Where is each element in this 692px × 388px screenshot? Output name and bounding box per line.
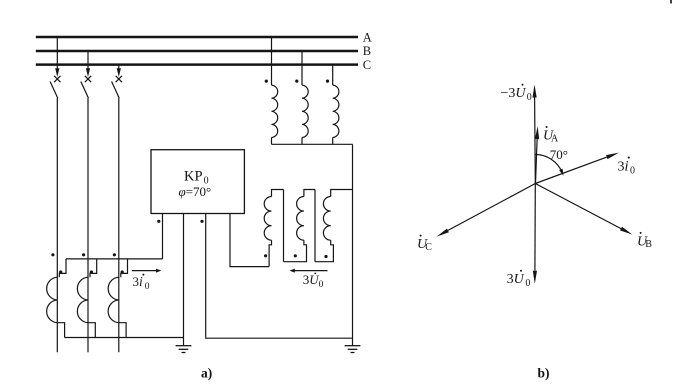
- bus B: [36, 44, 371, 58]
- vector -3U0 (up): [533, 85, 537, 184]
- current transformer TA3 secondary winding: [108, 277, 119, 323]
- wire relay terminal 1 (to 3I0 bus): [162, 214, 164, 259]
- label arrow 3U0: [289, 269, 327, 273]
- svg-text:3i: 3i: [133, 274, 144, 289]
- arrowhead on drop 1: [55, 68, 59, 77]
- node polarity dot TA1 primary: [51, 253, 54, 256]
- wire VT primary drop phase 1: [271, 37, 273, 85]
- svg-text:70°: 70°: [550, 147, 568, 162]
- label -3U0: [501, 84, 532, 103]
- label 3I0: [133, 274, 150, 292]
- inductor VT primary winding 2: [302, 85, 308, 137]
- node polarity dot TA3 primary: [113, 253, 116, 256]
- current transformer TA2 secondary winding: [77, 277, 88, 323]
- inductor VT secondary winding 1: [264, 197, 271, 241]
- label arrow 3I0: [132, 269, 162, 273]
- wire VT primary 1 bottom stub: [271, 138, 273, 145]
- wire VT secondary unit 2 right leg: [314, 190, 316, 262]
- wire open-delta link 1-2: [284, 240, 307, 262]
- wire CT common return bus: [65, 337, 184, 339]
- current transformer TA1 secondary winding: [47, 277, 58, 323]
- node polarity dot VT primary 1: [265, 80, 268, 83]
- svg-text:a): a): [201, 366, 212, 381]
- wire VT secondary unit 2 top bracket: [304, 190, 315, 197]
- node polarity dot VT primary 2: [295, 80, 298, 83]
- node polarity dot TA3 secondary: [121, 270, 124, 273]
- svg-text:C: C: [363, 58, 371, 72]
- svg-text:B: B: [645, 239, 652, 250]
- inductor VT primary winding 3: [333, 85, 339, 137]
- wire drop phase 2 from bus: [87, 51, 89, 70]
- wire TA1 secondary bottom lead: [57, 323, 64, 338]
- wire relay terminal 3 (to bottom bus): [206, 214, 353, 339]
- wire open-delta link 2-3: [315, 240, 333, 262]
- svg-text:0: 0: [319, 280, 324, 290]
- wire relay terminal 4 (3U0 bus to open delta): [230, 214, 269, 267]
- svg-text:0: 0: [145, 282, 150, 292]
- bus C: [36, 58, 371, 72]
- svg-text:A: A: [363, 30, 372, 44]
- label 3U0 (down): [507, 270, 531, 289]
- switch QS3 (x mark): [116, 76, 122, 82]
- wire TA3 secondary bottom lead: [119, 323, 126, 338]
- node polarity dot TA2 primary: [82, 253, 85, 256]
- label UB: [637, 232, 652, 250]
- node polarity dot secondary 2: [294, 254, 297, 257]
- wire VT primary neutral bus: [272, 143, 353, 145]
- svg-text:B: B: [363, 44, 371, 58]
- node dot relay terminal 1: [157, 220, 160, 223]
- switch QS1 blade: [50, 82, 58, 99]
- label UC: [417, 235, 432, 253]
- angle arc 70deg: [535, 154, 563, 175]
- switch QS2 blade: [81, 82, 89, 99]
- svg-text:0: 0: [527, 92, 532, 103]
- svg-text:3U: 3U: [507, 272, 525, 287]
- svg-text:A: A: [551, 133, 559, 144]
- ground G1 (under relay): [176, 346, 192, 353]
- inductor VT primary winding 1: [272, 85, 278, 137]
- node polarity dot secondary 3: [324, 255, 327, 258]
- vector UC (lower left): [437, 184, 536, 237]
- svg-text:−3U: −3U: [501, 86, 527, 101]
- inductor VT secondary winding 3: [323, 197, 330, 241]
- corner tick mark: [670, 0, 672, 4]
- wire drop phase 3 from bus: [118, 65, 120, 70]
- svg-text:0: 0: [525, 278, 530, 289]
- wire relay terminal 2 (to ground): [183, 214, 185, 346]
- node polarity dot TA2 secondary: [90, 270, 93, 273]
- label UA: [543, 126, 559, 144]
- bus A: [36, 30, 372, 44]
- node polarity dot TA1 secondary: [59, 270, 62, 273]
- wire VT primary drop phase 2: [301, 51, 303, 85]
- wire VT primary drop phase 3: [332, 65, 334, 86]
- ground G2 (bottom right): [345, 346, 361, 353]
- vector 3I0 (upper right): [535, 153, 619, 184]
- svg-text:KP: KP: [184, 169, 203, 185]
- wire VT primary 3 bottom stub: [332, 138, 334, 145]
- node polarity dot secondary 1: [264, 254, 267, 257]
- svg-text:0: 0: [630, 166, 635, 177]
- svg-text:b): b): [538, 366, 550, 381]
- switch QS2 (x mark): [85, 76, 91, 82]
- wire VT secondary unit 3 top bracket: [331, 190, 353, 197]
- switch QS1 (x mark): [54, 76, 60, 82]
- label 3U0: [303, 272, 324, 290]
- svg-text:3i: 3i: [618, 159, 629, 175]
- arrowhead on drop 2: [86, 68, 90, 77]
- wire drop phase 1 from bus: [56, 37, 58, 70]
- svg-text:φ=70°: φ=70°: [179, 184, 212, 199]
- wire open-delta link winding1 start: [269, 240, 271, 266]
- wire TA2 secondary bottom lead: [88, 323, 95, 338]
- wire phase 3 lower vertical: [118, 98, 120, 352]
- node polarity dot VT primary 3: [326, 80, 329, 83]
- wire phase 2 lower vertical: [87, 98, 89, 352]
- wire TA1 secondary top lead: [59, 259, 66, 277]
- svg-text:C: C: [425, 242, 432, 253]
- arrowhead on drop 3: [117, 68, 121, 77]
- vector 3U0 (down): [533, 184, 537, 284]
- switch QS3 blade: [112, 82, 120, 99]
- label 3I0: [618, 157, 636, 177]
- inductor VT secondary winding 2: [297, 197, 304, 241]
- vector UB (lower right): [535, 184, 632, 235]
- wire VT secondary unit 1 right leg: [283, 190, 285, 262]
- label KP0: [184, 169, 209, 187]
- node dot relay terminal 3: [200, 220, 203, 223]
- wire VT primary 2 bottom stub: [301, 138, 303, 145]
- wire 3I0 bus (CT secondaries to relay): [66, 258, 163, 260]
- wire TA2 secondary top lead: [90, 259, 97, 277]
- wire VT secondary unit 1 top bracket: [272, 190, 284, 197]
- op: relay box KP0: [151, 150, 244, 214]
- wire right vertical to ground: [352, 144, 354, 345]
- vector UA (up, short): [535, 126, 539, 183]
- wire TA3 secondary top lead: [121, 259, 128, 277]
- wire phase 1 lower vertical: [56, 98, 58, 352]
